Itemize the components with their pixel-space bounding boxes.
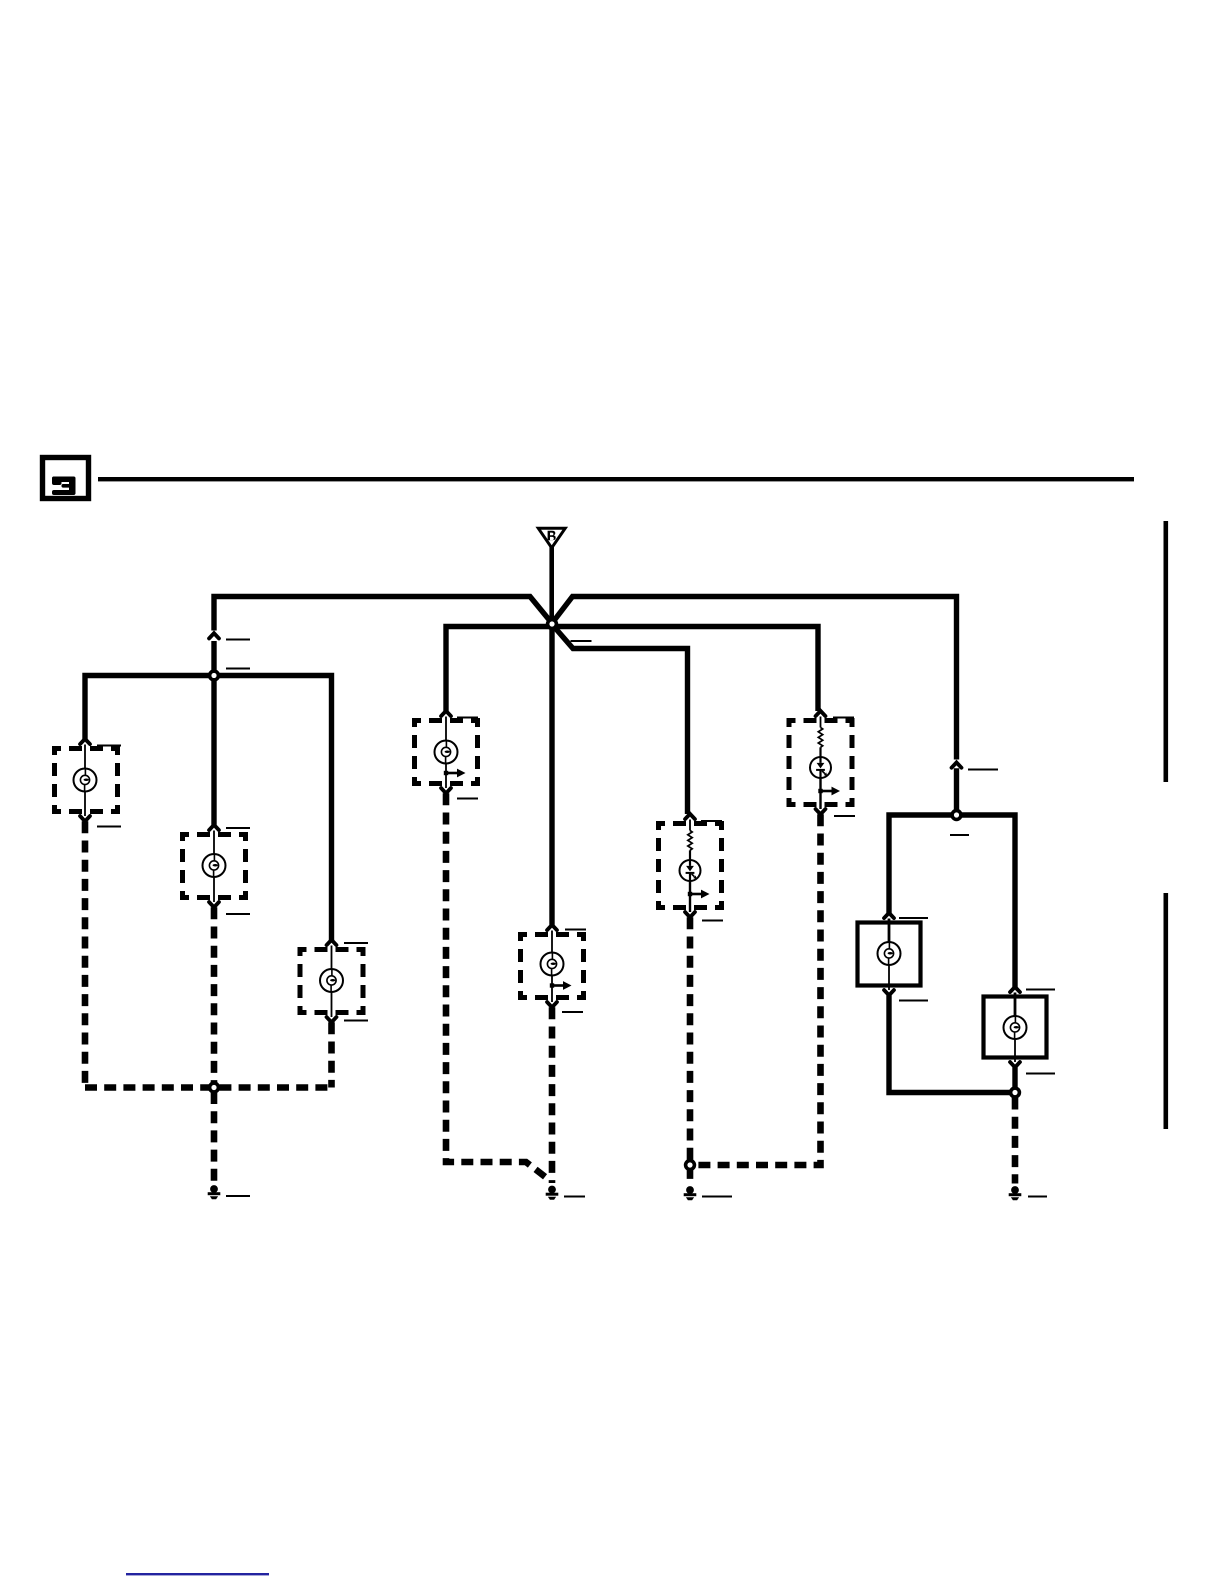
- connector arrow above lamp E3: [327, 940, 337, 945]
- connector arrow below lamp E3: [327, 1017, 337, 1022]
- label line: [968, 769, 998, 771]
- wire left bus with drops: [85, 676, 332, 941]
- label line: [899, 1000, 928, 1002]
- label line: [564, 1196, 585, 1198]
- indicator H2 led: [810, 757, 831, 778]
- label line: [344, 942, 368, 944]
- wire mid-right branch: [553, 627, 818, 712]
- lamp E2 bulb: [203, 854, 226, 877]
- label line: [226, 1195, 250, 1197]
- indicator H1 resistor: [689, 820, 691, 831]
- label line: [702, 1196, 732, 1198]
- lamp E4 dashed housing: [415, 721, 478, 784]
- wire top-left branch: [214, 597, 553, 631]
- node left ground bus: [210, 1083, 219, 1092]
- dashed wire from lamp E4 to ground G2: [446, 793, 551, 1181]
- wire top-right branch: [551, 597, 957, 760]
- label line: [344, 1020, 368, 1022]
- ground G3: [684, 1186, 697, 1200]
- indicator H1 led: [680, 860, 701, 881]
- dashed wire to ground G1: [211, 1092, 218, 1183]
- connector arrow below indicator H2: [816, 809, 826, 814]
- connector arrow above indicator H1: [685, 814, 695, 819]
- lamp E2 dashed housing: [183, 835, 246, 898]
- label line: [226, 639, 250, 641]
- lamp E6 bulb: [878, 942, 901, 965]
- lamp E3 dashed housing: [300, 950, 363, 1013]
- lamp E7 bulb: [1004, 1016, 1027, 1039]
- wire right bus with drops: [889, 815, 1015, 987]
- indicator H2 dashed housing: [789, 721, 852, 805]
- wire left-middle drop: [211, 678, 216, 825]
- label line: [226, 668, 250, 670]
- indicator H2 tap arrow: [818, 787, 840, 796]
- right margin bar lower: [1164, 893, 1169, 1129]
- dashed wire from lamp E3 down: [328, 1022, 335, 1087]
- label line: [701, 820, 722, 822]
- label line: [97, 826, 121, 828]
- right margin bar upper: [1164, 521, 1169, 782]
- lamp E1 bulb: [74, 769, 97, 792]
- label line: [950, 834, 969, 836]
- lamp E5 dashed housing: [521, 935, 584, 998]
- wire from lamp E7 to lower junction: [1012, 1067, 1017, 1088]
- top horizontal rule: [98, 477, 1134, 481]
- lamp E6 leads: [888, 919, 891, 943]
- connector arrow below indicator H1: [685, 912, 695, 917]
- lamp E5 tap arrow: [550, 981, 572, 990]
- indicator H2 resistor: [820, 717, 822, 728]
- ground G2: [546, 1186, 559, 1200]
- connector arrow above lamp E4: [441, 711, 451, 716]
- wire left riser lower part: [211, 641, 216, 672]
- ground G4: [1009, 1186, 1022, 1200]
- connector arrow below lamp E6: [884, 990, 894, 995]
- node left junction: [210, 671, 219, 680]
- dashed wire from lamp E1 down: [82, 821, 89, 1087]
- node lower right junction: [1011, 1088, 1020, 1097]
- wire mid-left branch: [446, 627, 551, 712]
- dashed wire from indicator H1 to ground G3: [687, 917, 694, 1183]
- ground G1: [208, 1185, 221, 1199]
- label line: [1028, 1196, 1047, 1198]
- lamp E7 leads: [1014, 993, 1017, 1016]
- dashed wire to ground G4: [1012, 1098, 1019, 1184]
- lamp E4 leads: [445, 717, 447, 789]
- label line: [702, 920, 723, 922]
- indicator H1 wire: [689, 850, 691, 860]
- label line: [834, 815, 855, 817]
- lamp E1 dashed housing: [55, 749, 118, 812]
- indicator H1 tap arrow: [688, 890, 710, 899]
- connector arrow below lamp E4: [441, 788, 451, 793]
- connector arrow above lamp E6: [884, 913, 894, 918]
- indicator H1 lower lead: [689, 881, 691, 912]
- label line: [1026, 1073, 1055, 1075]
- dashed wire from lamp E2 down: [211, 907, 218, 1087]
- indicator H1 dashed housing: [659, 824, 722, 908]
- connector arrow above indicator H2: [816, 711, 826, 716]
- lamp E1 leads: [84, 745, 86, 817]
- connector arrow above lamp E7: [1010, 987, 1020, 992]
- node right bus: [952, 811, 961, 820]
- section number box 3: [43, 458, 89, 499]
- connector arrow below lamp E5: [547, 1002, 557, 1007]
- wire lower-right diagonal branch: [553, 626, 688, 815]
- connector arrow above lamp E5: [547, 925, 557, 930]
- connector arrow below lamp E2: [209, 902, 219, 907]
- dashed wire from lamp E5 to ground G2: [549, 1007, 556, 1183]
- lamp E5 bulb: [541, 953, 564, 976]
- wire center down branch: [549, 626, 554, 925]
- indicator H2 lower lead: [819, 778, 821, 809]
- power feed triangle B: [538, 528, 565, 548]
- connector arrow on right riser: [952, 763, 962, 768]
- label line: [457, 798, 478, 800]
- label line: [226, 827, 250, 829]
- lamp E4 bulb: [435, 741, 458, 764]
- label line: [562, 1011, 583, 1013]
- label line: [899, 917, 928, 919]
- node ground bus right-mid: [686, 1161, 695, 1170]
- connector arrow below lamp E1: [80, 816, 90, 821]
- lamp E3 leads: [331, 946, 333, 1018]
- node B junction: [548, 620, 557, 629]
- label line near node B: [571, 640, 592, 642]
- label line: [1026, 989, 1055, 991]
- lamp E2 leads: [213, 831, 215, 903]
- wire from lamp E6 to lower junction: [889, 995, 1012, 1092]
- wire from triangle B to node: [549, 546, 554, 622]
- label line: [565, 929, 586, 931]
- lamp E6 solid housing: [858, 923, 921, 986]
- lamp E3 bulb: [320, 969, 343, 992]
- indicator H2 wire: [819, 747, 821, 757]
- label line: [97, 745, 121, 747]
- lamp E7 solid housing: [984, 997, 1047, 1058]
- connector arrow below lamp E7: [1010, 1062, 1020, 1067]
- lamp E4 tap arrow: [444, 769, 466, 778]
- dashed ground bus left: [85, 1084, 332, 1091]
- dashed wire from indicator H2 to ground bus: [694, 814, 821, 1165]
- connector arrow above lamp E1: [80, 739, 90, 744]
- label line: [457, 717, 478, 719]
- connector arrow on left riser: [209, 633, 219, 638]
- bottom blue link line: [126, 1573, 269, 1575]
- wire right riser lower part: [954, 768, 959, 812]
- label line: [833, 717, 854, 719]
- lamp E5 leads: [551, 931, 553, 1003]
- connector arrow above lamp E2: [209, 825, 219, 830]
- label line: [226, 913, 250, 915]
